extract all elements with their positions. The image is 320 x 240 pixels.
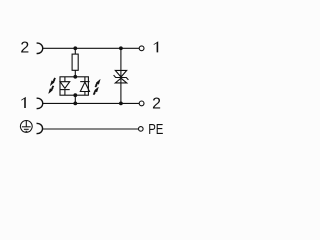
terminal socket arc (top left, pin 2) xyxy=(37,43,43,53)
wire top rail xyxy=(43,47,139,49)
PE earth bar long xyxy=(22,126,31,128)
diode D2 triangle xyxy=(80,82,89,91)
terminal label 1 (mid left) xyxy=(21,97,26,108)
suppressor V1 zener bar xyxy=(114,75,129,80)
PE earth symbol circle xyxy=(20,121,32,133)
svg-text:2: 2 xyxy=(20,40,29,57)
suppressor diode V1 branch wire xyxy=(120,48,122,103)
node junction bottom-right dot xyxy=(119,102,123,106)
PE pin circle xyxy=(139,127,144,132)
node dot box bottom xyxy=(73,93,77,97)
wire resistor to arrester box xyxy=(74,70,76,77)
diode D1 (left, cathode down) lead xyxy=(64,77,66,82)
node dot box top xyxy=(73,75,77,79)
wire from top rail to resistor xyxy=(74,48,76,54)
terminal label 1 (top right) xyxy=(154,41,159,52)
node junction bottom-left dot xyxy=(73,102,77,106)
PE earth stem xyxy=(25,121,27,127)
node junction top-right dot xyxy=(119,46,123,50)
diode D2 cathode bar xyxy=(80,81,89,83)
diode D1 triangle xyxy=(60,82,70,89)
terminal pin circle (mid right, pin 2) xyxy=(139,101,144,106)
terminal socket arc (mid left, pin 1) xyxy=(37,98,43,108)
arrester box outline xyxy=(60,77,88,95)
PE earth bar short xyxy=(26,130,28,132)
suppressor V1 upper triangle xyxy=(115,70,126,77)
flash arrow lower-left xyxy=(49,86,54,94)
diode D2 lower lead xyxy=(84,92,86,96)
PE earth bar mid xyxy=(24,128,29,130)
PE socket arc xyxy=(37,123,43,133)
svg-text:PE: PE xyxy=(148,121,163,138)
terminal pin circle (top right, pin 1) xyxy=(139,46,144,51)
resistor R1 xyxy=(72,54,78,70)
node junction top-left dot xyxy=(73,46,77,50)
flash arrow upper-right xyxy=(95,79,100,87)
wire box to bottom rail xyxy=(74,95,76,103)
suppressor V1 lower triangle xyxy=(115,78,126,83)
diode D1 lower lead xyxy=(64,90,66,96)
diode D1 cathode bar xyxy=(60,89,69,91)
wire bottom rail xyxy=(43,102,139,104)
flash arrow upper-left xyxy=(50,78,55,86)
flash arrow lower-right xyxy=(94,87,99,95)
svg-text:2: 2 xyxy=(152,95,161,112)
diode D2 (right, cathode up) lead xyxy=(84,77,86,82)
wire PE rail xyxy=(43,128,139,130)
